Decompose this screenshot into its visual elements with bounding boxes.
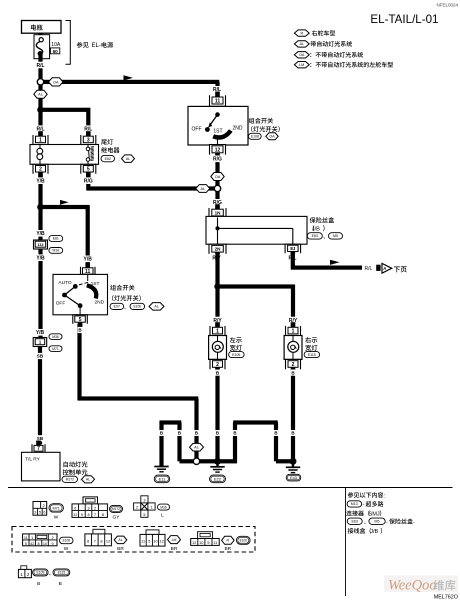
wire conn 113 to conn M36 [38,249,42,338]
wire right lamp to ground dot [291,369,295,459]
svg-text:AL: AL [38,93,43,97]
svg-text:10: 10 [199,541,203,545]
svg-text:NFEL0024: NFEL0024 [436,3,458,8]
note SMJ line1 [347,501,383,508]
label R/L above pin 11 [211,86,222,93]
label 参见 EL-电源 [77,42,113,49]
label B x196 [194,430,199,436]
label NFEL0024 [436,3,458,8]
legend connector M71 [33,502,63,521]
relay pin 5 [81,164,96,177]
svg-text:M172: M172 [66,477,74,481]
pin 11 of light switch [210,92,226,107]
svg-text:E100: E100 [133,305,141,309]
switch line to pin 12 [217,137,219,146]
svg-text:2: 2 [52,536,54,540]
svg-text:3: 3 [143,499,145,503]
label R/L above relay pin 1 [35,125,46,132]
svg-text:10A: 10A [51,42,61,48]
arrow on R/L wire [330,260,340,265]
svg-text:1: 1 [39,137,42,143]
svg-text:WeeQoo: WeeQoo [388,578,437,594]
svg-text:MEL762O: MEL762O [434,595,458,601]
legend connector E109/E115 [18,566,69,587]
svg-text:3: 3 [87,137,90,143]
relay pin 2 [33,164,48,177]
svg-text:B: B [160,431,163,436]
svg-text:10: 10 [153,540,157,544]
svg-text:12: 12 [106,539,110,543]
JB internal wires [215,218,292,245]
variant AL on battery column [34,90,47,98]
label 保险丝盒 (J/B) [307,217,342,239]
svg-text:12: 12 [215,147,221,153]
legend variant OA [294,52,363,58]
label Y/B above switch pin 11 [82,256,93,263]
next page arrow A [376,263,392,273]
fusible link 10A 60 [34,35,61,59]
svg-text:11: 11 [141,540,145,544]
svg-text:AL: AL [300,42,304,46]
junction dot lamp feed [214,283,220,289]
svg-text:B: B [216,431,219,436]
svg-text:LM: LM [172,538,177,542]
svg-text:42: 42 [30,542,34,546]
note JB line1 [347,518,415,526]
lower switch line to pin 5 [79,307,81,315]
watermark backdrop [384,576,458,593]
relay pin 1 [33,131,48,144]
svg-text:M36: M36 [160,505,166,509]
svg-text:1N: 1N [215,210,222,215]
svg-text:5: 5 [79,317,82,323]
svg-text:E62: E62 [105,157,111,161]
relay coil [37,145,43,165]
svg-text:5: 5 [148,540,150,544]
label B x179 [177,430,182,436]
wire node to JB pin 1N [215,192,219,209]
label 自动灯光控制单元 [62,461,95,483]
label B x293 [291,430,296,436]
label Y/B below conn 113 [35,254,46,261]
label R/L at arrow [365,266,373,272]
svg-text:BR: BR [171,546,178,552]
svg-text:E100: E100 [240,538,248,542]
legend vertical line [345,488,347,597]
label 组合开关 (灯光开关) [248,118,279,140]
svg-text:3: 3 [87,507,89,511]
svg-text:B: B [37,581,40,587]
svg-text:W: W [54,515,59,521]
label B below switch pin 5 [78,327,83,333]
svg-text:2N: 2N [215,247,222,252]
JB pin 1N [209,204,226,218]
wire top bus [44,80,220,92]
svg-text:BR: BR [224,546,231,552]
svg-text:11: 11 [24,536,28,540]
svg-text:OA: OA [269,135,275,139]
label Y/B under pin 2 [35,177,46,184]
svg-text:SB: SB [37,354,44,359]
right ground loop [233,420,291,463]
svg-text:M5: M5 [333,234,338,238]
arrow on top bus [124,75,134,80]
svg-text:5: 5 [207,541,209,545]
label B under left lamp [215,370,220,376]
svg-text:9: 9 [81,513,83,517]
connector 1 M36/M71 [33,334,62,352]
svg-text:W: W [64,546,69,552]
watermark WeeQoo [388,578,455,594]
svg-text:E109: E109 [232,353,240,357]
svg-text:AL: AL [154,305,158,309]
variant AL before node [196,185,210,193]
svg-text:AL: AL [126,157,130,161]
wire lower switch B to AL ground [77,324,198,444]
svg-text:E108: E108 [251,135,259,139]
right lamp pin 1 [286,322,301,336]
ground E43 [286,462,301,481]
svg-text:LM: LM [299,63,304,67]
note SMJ line2 [346,510,381,517]
svg-text:Y/B: Y/B [36,256,45,262]
legend connector AL [85,529,127,552]
svg-text:5: 5 [87,167,90,173]
title EL-TAIL/L-01 [370,13,438,26]
legend connector R [191,532,250,552]
svg-text:5: 5 [143,513,145,517]
svg-text:B: B [178,431,181,436]
svg-text:12: 12 [192,541,196,545]
label SB below conn M36 [36,353,44,359]
svg-text:9: 9 [52,542,54,546]
ground E11 [154,467,170,483]
svg-text:GY: GY [113,515,121,521]
svg-text::: : [119,156,120,161]
svg-text:R/G: R/G [213,157,222,163]
bracket see EL-power [66,21,71,65]
JB pin 8J [285,244,301,257]
svg-text:1: 1 [292,329,295,335]
label MEL762O [434,595,458,601]
label R/Y under 2N [211,254,222,261]
svg-text:M16: M16 [52,249,59,253]
node connector to JB [214,185,220,191]
svg-text:AL: AL [200,187,205,191]
label B x161 [159,430,164,436]
light switch box [188,106,248,145]
label R/Y above left lamp [212,317,223,324]
svg-text:A: A [383,266,386,271]
svg-text:2: 2 [292,362,295,368]
node connector circle [37,79,43,85]
label R/G above 1N [212,199,223,206]
svg-text:M71: M71 [52,347,59,351]
junction dot left column [37,204,44,211]
left lamp pin 1 [210,322,225,336]
svg-text:OFF: OFF [56,301,66,307]
svg-text:AL: AL [118,538,122,542]
lower switch 1ST label [91,281,100,287]
svg-text:AUTO: AUTO [58,280,72,286]
wire node to junction [38,85,42,136]
wire 8J to next page [291,253,362,270]
ground E22 [210,462,226,483]
svg-text:8: 8 [102,513,104,517]
svg-text:R/L: R/L [36,63,44,69]
switch 2ND label [232,126,242,132]
svg-text:J/B: J/B [370,529,378,535]
svg-text:BR: BR [117,546,124,552]
legend variant AL [294,41,352,47]
left lamp body [209,336,227,360]
wire AL to ground node [194,451,198,458]
svg-text:1: 1 [31,536,33,540]
label B x235 [233,430,238,436]
svg-text:Y/B: Y/B [84,257,93,263]
variant AL ground path [190,443,204,451]
svg-text:AL: AL [86,478,90,482]
ground node circle [193,458,199,464]
lower switch 2ND label [94,300,104,306]
control unit pin 7 [32,441,45,453]
svg-text:B: B [233,431,236,436]
svg-text:B: B [274,431,277,436]
legend connector LM [140,530,181,552]
relay pin 3 [81,131,96,144]
right lamp body [284,336,302,360]
left lamp pin 2 [210,359,225,373]
ground bus left [180,459,194,463]
svg-text:M13: M13 [351,502,358,506]
svg-text:J/B: J/B [312,227,320,233]
variant OA above node [211,173,224,181]
svg-text:E108: E108 [63,539,71,543]
label SB above pin 7 [36,435,44,441]
label 尾灯继电器 [101,139,135,162]
switch contact from pin 11 [208,112,220,128]
dashed box [12,527,255,553]
svg-text:2: 2 [43,504,45,508]
switch 1ST label [213,129,222,135]
auto light control unit box [22,452,61,481]
svg-text:2ND: 2ND [94,300,104,306]
svg-text:E43: E43 [290,476,297,480]
tail lamp relay box [30,145,99,165]
lower switch OFF label [56,301,66,307]
svg-text:2: 2 [94,507,96,511]
svg-text:R: R [300,31,303,35]
switch OFF position [192,126,210,132]
svg-text:M172: M172 [112,507,120,511]
svg-text:OA: OA [215,175,221,179]
wire left lamp to ground dot [215,369,219,459]
wire branch to relay pin 3 [41,108,91,137]
svg-text::: : [264,134,265,139]
wire battery to fuse [38,33,42,37]
junction dot [37,107,44,114]
svg-text:M5: M5 [375,520,380,524]
svg-text:113: 113 [37,243,43,247]
svg-text:EL-: EL- [92,43,101,49]
lower switch contacts [62,282,88,308]
lower switch arc contact [87,285,97,298]
svg-text:12: 12 [73,513,77,517]
svg-text:E63: E63 [351,520,357,524]
svg-text:1: 1 [150,506,152,510]
svg-text:Y/B: Y/B [36,179,45,185]
svg-text:11: 11 [213,541,217,545]
svg-text:5: 5 [39,511,41,515]
wire branch to lower switch [41,205,90,268]
svg-text:2: 2 [136,506,138,510]
svg-text:1: 1 [216,329,219,335]
svg-text:E63: E63 [312,234,318,238]
right lamp pin 2 [286,359,301,373]
svg-text:60: 60 [53,49,59,54]
svg-text:2ND: 2ND [232,126,242,132]
wire pin12 down to node [215,155,219,186]
svg-text:SMJ: SMJ [369,512,380,518]
svg-text:OFF: OFF [192,126,202,132]
relay contact [86,145,94,165]
label Y/B above conn 113 [35,230,46,237]
arrow on branch [60,200,69,205]
svg-text:2: 2 [39,167,42,173]
ground bus mid [200,459,237,463]
switch arc contact [213,131,231,138]
svg-text:B: B [59,581,62,587]
svg-text:OA: OA [299,53,305,57]
svg-text:6: 6 [74,507,76,511]
legend connector M172 [72,497,123,521]
legend variant R [294,30,335,36]
lower switch pin 11 [81,263,96,276]
svg-text:7: 7 [94,513,96,517]
label Y/B above conn M36 [34,329,45,336]
svg-text:SB: SB [37,436,44,441]
svg-text:B: B [291,431,294,436]
svg-text:OA: OA [53,80,59,84]
svg-text:8: 8 [87,513,89,517]
ground junction dot E22 [214,458,221,465]
separator line [8,487,453,489]
svg-text:3: 3 [34,511,36,515]
svg-text:B: B [195,431,198,436]
svg-text:7: 7 [94,539,96,543]
svg-text:E115: E115 [58,571,66,575]
label R/L under 8J [287,254,298,261]
wire relay pin5 to node [86,174,214,191]
svg-text:E11: E11 [159,476,167,481]
label R/G under pin 5 [83,177,94,184]
svg-text:EL-TAIL/L-01: EL-TAIL/L-01 [370,13,438,26]
svg-text:Y/B: Y/B [36,231,45,237]
svg-text:M71: M71 [53,506,60,510]
svg-text:AL: AL [194,446,199,450]
label R/Y above right lamp [287,317,298,324]
label R/G under pin 12 [212,156,223,163]
label 右示宽灯 [304,337,320,358]
svg-text:11: 11 [215,98,221,104]
svg-text:E109: E109 [36,571,44,575]
label R/L above relay pin 3 [83,125,94,132]
svg-text:E97: E97 [114,305,120,309]
svg-text:Y/B: Y/B [36,330,45,336]
svg-text:E81: E81 [53,237,59,241]
lower switch line from pin 11 [87,275,89,281]
label B x217 [215,430,220,436]
pin 12 of light switch [210,145,226,159]
legend connector E108 [23,534,73,552]
battery [22,21,62,34]
svg-text:R/G: R/G [84,179,93,185]
wire fuse to node, label R/L [35,55,46,79]
label 组合开关 lower [110,285,164,310]
connector 113 E81/M16 [34,236,63,254]
svg-text:T/L RY: T/L RY [25,457,41,463]
svg-text:L: L [161,513,164,519]
legend variant LM [294,62,393,68]
svg-text:5: 5 [25,542,27,546]
svg-text:6: 6 [87,539,89,543]
svg-text:M36: M36 [52,335,59,339]
lower switch AUTO label [58,280,72,286]
svg-text:E22: E22 [214,476,222,481]
svg-text:R/L: R/L [365,266,373,272]
label 左示宽灯 [229,337,245,358]
svg-text:7: 7 [37,446,40,452]
fuse box J/B [206,216,307,244]
svg-text::: : [80,478,81,482]
svg-text:12: 12 [160,540,164,544]
wire 2N to left lamp [215,254,219,327]
svg-text:6: 6 [43,511,45,515]
variant OA on top bus [49,78,64,86]
wire conn M36 to control unit [38,347,42,445]
svg-text:8: 8 [38,542,40,546]
svg-text:1ST: 1ST [213,129,222,135]
wire branch to right lamp [218,284,296,326]
svg-text:10: 10 [43,542,47,546]
legend connector M36 [134,496,170,519]
JB pin 2N [209,244,226,258]
svg-text:2: 2 [216,362,219,368]
svg-text:E115: E115 [308,353,316,357]
lower switch pin 5 [73,315,88,328]
svg-text:8J: 8J [290,246,296,251]
label 下页 [394,266,407,272]
wire pin2 down to conn 113 [38,174,42,241]
note JB line2 [348,528,382,535]
ground junction dot E43 [290,458,297,465]
note 参见以下内容 [348,492,386,499]
lower switch box [53,274,108,314]
svg-text:8: 8 [100,539,102,543]
label B x276 [274,430,279,436]
label B under right lamp [291,370,296,376]
E11 ground loop [159,420,181,466]
